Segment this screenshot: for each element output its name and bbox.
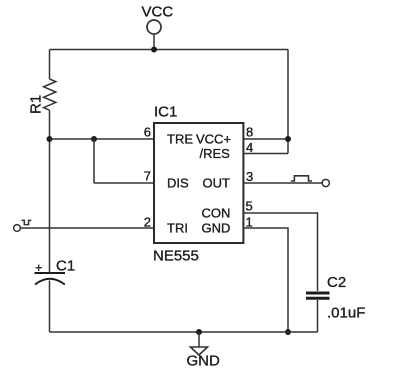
- svg-text:R1: R1: [28, 95, 45, 114]
- wire pin7 branch horizontal: [94, 182, 154, 184]
- resistor R1: [44, 79, 56, 110]
- node pin1 bottom junction: [285, 329, 291, 335]
- op-amp IC1 box (NE555): [154, 123, 243, 243]
- node pin7 branch junction: [91, 136, 97, 142]
- svg-text:8: 8: [246, 125, 253, 140]
- wire right rail: [287, 50, 289, 154]
- wire VCC stub: [153, 34, 155, 50]
- svg-text:DIS: DIS: [167, 176, 189, 191]
- wire pin 1: [243, 228, 288, 332]
- svg-text:NE555: NE555: [153, 248, 199, 265]
- wire pin7 branch vertical: [93, 139, 95, 183]
- capacitor C1 curved plate: [35, 279, 65, 285]
- wire left rail upper: [49, 50, 51, 80]
- node GND junction: [196, 329, 202, 335]
- svg-text:TRI: TRI: [167, 221, 188, 236]
- wire pin 5: [243, 213, 317, 291]
- symbol positive pulse: [291, 176, 312, 181]
- svg-text:6: 6: [144, 125, 151, 140]
- svg-text:VCC+: VCC+: [196, 132, 231, 147]
- svg-text:2: 2: [144, 214, 151, 229]
- wire pin 8: [243, 138, 288, 140]
- svg-text:OUT: OUT: [203, 176, 231, 191]
- svg-text:C1: C1: [56, 258, 75, 275]
- VCC terminal: [147, 20, 161, 34]
- wire to pin 6: [50, 138, 155, 140]
- svg-text:C2: C2: [327, 274, 346, 291]
- svg-text:CON: CON: [202, 206, 231, 221]
- node R1 bottom junction: [47, 136, 53, 142]
- wire pin 3 output: [243, 182, 322, 184]
- svg-text:.01uF: .01uF: [327, 305, 365, 322]
- svg-text:7: 7: [144, 169, 151, 184]
- wire C1 bottom: [49, 281, 51, 333]
- node VCC junction: [151, 47, 157, 53]
- wire left rail middle: [49, 110, 51, 272]
- node pin 8 junction: [285, 136, 291, 142]
- symbol negative pulse: [22, 220, 32, 224]
- svg-text:3: 3: [246, 169, 253, 184]
- svg-text:5: 5: [246, 199, 253, 214]
- wire trigger to pin 2: [20, 227, 154, 229]
- wire GND stub: [198, 332, 200, 347]
- terminal output: [322, 179, 329, 186]
- terminal trigger input: [14, 225, 21, 232]
- svg-text:/RES: /RES: [200, 146, 231, 161]
- wire bottom rail: [50, 331, 318, 333]
- svg-text:GND: GND: [187, 353, 221, 370]
- svg-text:IC1: IC1: [154, 104, 177, 121]
- svg-text:GND: GND: [202, 221, 231, 236]
- wire C2 bottom: [317, 300, 319, 332]
- svg-text:VCC: VCC: [142, 4, 174, 21]
- capacitor C2: [306, 292, 330, 295]
- wire top rail: [50, 49, 289, 51]
- label C1 plus sign: [36, 265, 43, 272]
- svg-text:1: 1: [246, 214, 253, 229]
- capacitor C1 plus plate: [35, 272, 66, 274]
- ground: [190, 347, 207, 355]
- svg-text:TRE: TRE: [167, 132, 193, 147]
- wire pin 4: [243, 153, 288, 155]
